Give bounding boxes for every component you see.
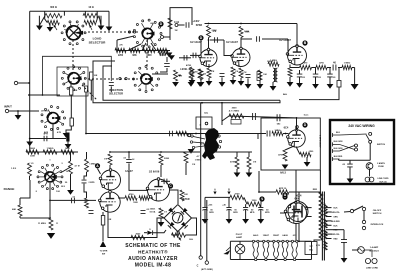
wire C2 up xyxy=(166,57,168,62)
diode D4 xyxy=(168,222,175,229)
wire dash diag xyxy=(82,85,97,100)
wire filter end dn xyxy=(354,68,356,85)
label V5 xyxy=(149,170,160,173)
svg-text:2.7K: 2.7K xyxy=(242,72,247,74)
wire osc out row2 xyxy=(229,116,296,118)
wire SW2b to pots xyxy=(152,73,168,75)
heater V0 filament xyxy=(252,240,259,258)
ground G25 xyxy=(47,233,55,239)
wire filter rail d xyxy=(352,67,355,69)
label 50ua a xyxy=(150,209,157,211)
svg-text:SWITCH: SWITCH xyxy=(373,213,382,215)
label LOAD SELECTOR line1 xyxy=(93,37,103,41)
wire bus2 xyxy=(86,133,258,135)
ground G19 xyxy=(296,83,303,88)
capacitor C2 xyxy=(164,64,170,67)
box CAL connector xyxy=(196,117,212,129)
label mkr b xyxy=(102,254,105,256)
svg-text:470K: 470K xyxy=(186,64,192,67)
svg-text:2 AMPS: 2 AMPS xyxy=(377,162,385,165)
wire T1 dn xyxy=(272,82,274,86)
svg-text:INJECTION: INJECTION xyxy=(109,88,123,92)
wire cap0 dn xyxy=(204,210,206,219)
wire fil right xyxy=(311,241,313,259)
label LINE CORD2 xyxy=(366,268,378,270)
wire R20 dn xyxy=(200,79,202,82)
svg-text:5600: 5600 xyxy=(30,148,36,150)
svg-text:68K: 68K xyxy=(12,209,16,211)
capacitor C6 coupling xyxy=(257,36,260,42)
capacitor C22 electrolytic xyxy=(202,208,214,215)
wire T2 tap7 xyxy=(326,238,332,240)
pot wiper M xyxy=(179,237,182,241)
svg-text:SELECTOR: SELECTOR xyxy=(89,41,107,45)
tube V3 12AX7c xyxy=(286,45,306,65)
svg-text:3900: 3900 xyxy=(232,108,238,110)
svg-text:RED: RED xyxy=(334,239,339,241)
pin circle 2 xyxy=(275,258,277,260)
wire R40 dn xyxy=(160,165,162,177)
wire lamp dn xyxy=(239,254,241,260)
terminal sw b xyxy=(362,207,365,210)
svg-text:1 M: 1 M xyxy=(253,162,257,164)
plug P2 xyxy=(365,177,374,182)
wire T2 tap1 xyxy=(326,211,332,213)
wire R55 dn xyxy=(248,169,250,173)
wire R37 h xyxy=(20,217,51,219)
label BLK2 240 xyxy=(379,181,386,183)
label vr48b xyxy=(309,151,314,153)
junction V1 plate xyxy=(208,39,210,41)
component X1 box xyxy=(231,120,241,125)
ground G2b xyxy=(106,27,113,32)
tube V2 12AX7b xyxy=(231,47,250,66)
node B2 xyxy=(282,194,287,199)
resistor R5 box xyxy=(70,87,73,95)
wire SW2 left stub xyxy=(116,40,118,51)
heater V1 filament xyxy=(263,240,270,258)
wire R54 dn xyxy=(236,169,238,173)
svg-text:LINE CORD: LINE CORD xyxy=(378,178,390,180)
resistor R4 pot xyxy=(84,20,96,24)
capacitor C8 xyxy=(246,75,251,78)
svg-text:68K: 68K xyxy=(132,55,137,57)
transformer T2 sec1 xyxy=(324,204,327,217)
svg-text:SCHEMATIC OF THE: SCHEMATIC OF THE xyxy=(125,243,181,249)
wire C17 xyxy=(161,180,170,182)
label 682 xyxy=(277,124,281,126)
wire sw feed xyxy=(344,211,351,214)
meter M1 xyxy=(173,213,183,223)
resistor R52 3900 xyxy=(229,114,244,118)
capacitor C13 input xyxy=(43,132,49,142)
resistor R41 xyxy=(125,193,137,200)
resistor R16 cal xyxy=(176,131,188,135)
svg-text:6AL5: 6AL5 xyxy=(280,172,287,175)
wire SW4 dn xyxy=(52,124,54,139)
svg-text:BLK-GRN: BLK-GRN xyxy=(334,141,343,143)
capacitor C25 electrolytic xyxy=(258,208,270,215)
label fil 6C4 xyxy=(293,234,298,237)
svg-text:39 K: 39 K xyxy=(61,186,66,188)
label vd5 xyxy=(149,229,151,231)
label PILOT line1 xyxy=(236,234,243,236)
junction fil v7 xyxy=(298,240,300,242)
capacitor C31 xyxy=(109,83,114,86)
wire R39 dn xyxy=(109,165,111,170)
resistor R34 xyxy=(69,161,73,174)
wire C6 right xyxy=(262,38,288,40)
label tap GRN-YEL xyxy=(331,212,340,214)
wire R1 stub L xyxy=(44,11,46,15)
wire R37 u xyxy=(19,198,21,205)
svg-text:56 K: 56 K xyxy=(65,148,70,150)
svg-text:6AU6: 6AU6 xyxy=(282,234,288,237)
wire T2 prim dn xyxy=(314,240,321,242)
ground G5 xyxy=(166,53,173,58)
label range p3 xyxy=(35,191,38,193)
transformer T2 primary xyxy=(319,192,322,240)
label 140V xyxy=(193,20,200,23)
transformer T2 core a xyxy=(321,192,323,261)
label range 1 xyxy=(49,160,51,162)
wire gang dash SW1-SW2 xyxy=(80,31,140,33)
wire C14 dn xyxy=(84,184,87,198)
svg-text:12AX7: 12AX7 xyxy=(263,234,270,237)
svg-text:1 MEG: 1 MEG xyxy=(344,63,351,65)
label vc10 xyxy=(318,77,322,79)
wire R21 dn xyxy=(208,78,210,81)
wire res row rail xyxy=(117,50,170,52)
node D1 xyxy=(158,21,163,26)
label vr44 xyxy=(164,212,168,214)
svg-text:GRN: GRN xyxy=(333,217,338,219)
node A2 xyxy=(259,196,264,201)
label title line3 xyxy=(128,256,178,262)
label vr30b xyxy=(30,156,35,158)
label INPUT terminal xyxy=(4,105,12,109)
ground G13 xyxy=(238,81,245,86)
resistor R31 1MEG xyxy=(43,148,57,154)
pin circle 0 xyxy=(255,258,257,260)
svg-text:2700: 2700 xyxy=(235,193,241,195)
wire 240 cap u xyxy=(349,160,351,164)
wire 240 low rail xyxy=(339,159,371,161)
wire V7 dn xyxy=(295,224,297,242)
wire T2 tap0 xyxy=(326,207,332,209)
wire cap2 dn xyxy=(245,210,247,219)
tube V7 6X4 xyxy=(288,201,308,222)
svg-text:Z5021: Z5021 xyxy=(150,209,157,211)
wire input cap row xyxy=(30,138,66,140)
wire bridge dio2 xyxy=(153,230,166,233)
resistor R14 1800 xyxy=(198,69,202,80)
label fil 12AX7 xyxy=(263,234,270,237)
label fil 6AU6 xyxy=(282,234,288,237)
pin circle 3 xyxy=(284,258,286,260)
svg-text:330K: 330K xyxy=(30,156,35,158)
label 6AL5 xyxy=(280,172,287,175)
terminal 240 sw2 xyxy=(369,140,372,143)
junction bus2 cal xyxy=(195,133,197,135)
svg-text:1 MEG: 1 MEG xyxy=(47,148,54,150)
svg-text:2 MFD: 2 MFD xyxy=(89,182,96,184)
svg-text:220K: 220K xyxy=(164,158,170,160)
plug P1 xyxy=(365,258,377,263)
wire fil rail bot xyxy=(230,259,311,261)
svg-text:METER: METER xyxy=(181,199,189,201)
svg-text:6800: 6800 xyxy=(146,55,152,57)
svg-text:AUDIO ANALYZER: AUDIO ANALYZER xyxy=(128,256,178,262)
ground G26 xyxy=(158,222,165,227)
ref arrow A xyxy=(213,189,216,195)
wire R44 dn xyxy=(160,218,162,222)
svg-text:.047: .047 xyxy=(43,132,48,135)
svg-text:4 MFD 450V: 4 MFD 450V xyxy=(319,135,322,148)
label FUSE xyxy=(378,166,384,168)
resistor R30 5600 xyxy=(26,148,39,154)
wire sw5 right xyxy=(62,167,71,172)
label vr60 xyxy=(108,219,112,221)
resistor R44 xyxy=(159,208,163,218)
transformer T2 sec2 xyxy=(324,219,327,228)
wire 240 stub0 xyxy=(333,132,341,137)
svg-text:1 M: 1 M xyxy=(104,159,108,161)
wire to C term xyxy=(200,103,202,256)
label vr7b xyxy=(119,45,123,47)
label INTERLOCK xyxy=(371,224,384,226)
wire V1 cath dn xyxy=(208,64,210,68)
resistor R2 load 16 xyxy=(83,6,99,18)
wire R6 gnd xyxy=(66,126,71,133)
resistor R11 14 xyxy=(168,18,179,29)
wire gang dash SW3-SW2b xyxy=(80,78,139,80)
resistor R47 xyxy=(283,150,287,161)
ground G15b xyxy=(257,84,264,89)
svg-text:RANGE: RANGE xyxy=(4,187,15,191)
label 2AMP xyxy=(377,162,385,165)
svg-text:hum: hum xyxy=(304,115,309,117)
svg-text:MFD: MFD xyxy=(250,212,255,214)
diode D5 xyxy=(147,230,152,235)
resistor R13 470K xyxy=(186,64,193,80)
wire C12 d xyxy=(329,77,331,84)
wire R5 up xyxy=(70,81,72,87)
label 4.7M xyxy=(74,165,79,168)
junction b+feed L xyxy=(109,151,111,153)
resistor R48 xyxy=(300,152,311,156)
wire range rail xyxy=(26,151,78,153)
wire 240 top link xyxy=(340,134,367,135)
label vr55 xyxy=(253,162,257,164)
svg-text:2200: 2200 xyxy=(118,55,124,57)
transformer T2 core b xyxy=(323,192,325,261)
capacitor C30 xyxy=(72,198,75,204)
heater V4 filament xyxy=(291,240,298,258)
resistor R36 xyxy=(38,218,53,230)
label V3 xyxy=(279,39,291,42)
svg-text:11 MEG: 11 MEG xyxy=(38,223,46,225)
wire v4 link xyxy=(118,197,125,199)
capacitor C24 electrolytic xyxy=(243,208,255,215)
terminal 240 a xyxy=(355,144,358,147)
wire fil left xyxy=(229,241,231,259)
tube V7 6X4 xyxy=(284,201,306,223)
resistor R23 xyxy=(258,70,262,80)
resistor R55 xyxy=(247,157,251,169)
bridge diamond xyxy=(164,205,192,232)
tube V5 6AU6 xyxy=(146,178,169,201)
wire T2 tap3 xyxy=(326,220,332,222)
junction sw5 out xyxy=(49,200,51,202)
svg-text:50 UA: 50 UA xyxy=(150,211,156,214)
wire C32 xyxy=(179,57,191,59)
wire bridge loop xyxy=(172,232,178,236)
label vc11 xyxy=(333,77,337,79)
chassis arrow xyxy=(223,247,230,255)
wire C11 d xyxy=(315,77,317,84)
label range 10 xyxy=(66,171,69,173)
label FUNCTION line1 xyxy=(109,88,123,92)
svg-text:4.7K: 4.7K xyxy=(57,131,62,134)
resistor R37 xyxy=(12,205,22,216)
svg-text:1 M: 1 M xyxy=(192,164,196,166)
wire V1 plate xyxy=(208,38,210,50)
ground G10 xyxy=(198,82,205,87)
wire v5 link xyxy=(149,197,153,199)
wire 240 sw col xyxy=(369,143,371,160)
wire right feed xyxy=(319,170,321,196)
pin circle 1 xyxy=(265,258,267,260)
wire 240 cross2 xyxy=(340,146,355,152)
wire bus2 right down xyxy=(257,134,259,140)
wire T2 tap4 xyxy=(326,224,332,226)
ground G12 xyxy=(230,80,237,85)
lamp PL1 pilot xyxy=(235,244,245,254)
terminal J1 xyxy=(14,81,17,84)
wire C10 d xyxy=(299,77,301,83)
capacitor C5 V1 grid xyxy=(193,53,196,59)
svg-text:1 M: 1 M xyxy=(235,71,239,73)
wire R55 up xyxy=(248,152,250,157)
pot wiper R4 xyxy=(90,25,93,30)
tube V1 12AX7a xyxy=(199,48,217,66)
label CAL 3 xyxy=(199,125,201,127)
terminal CAL xyxy=(205,122,208,125)
svg-text:1500: 1500 xyxy=(252,200,258,202)
wire R19 dn xyxy=(191,77,193,80)
svg-text:6C4: 6C4 xyxy=(284,126,289,130)
wire 240 stub3 xyxy=(333,156,343,161)
capacitor C33 series xyxy=(333,61,336,71)
label fuse xyxy=(370,246,379,249)
switch SW6 rotor blob xyxy=(190,128,221,160)
svg-text:MFD: MFD xyxy=(233,212,238,214)
wire sw5 d xyxy=(49,183,51,218)
label hum xyxy=(304,115,309,117)
terminal fb xyxy=(161,36,164,39)
terminal C end xyxy=(199,256,202,259)
wire filter rail c xyxy=(338,67,342,69)
svg-text:1W: 1W xyxy=(175,30,178,32)
ground G27 xyxy=(282,165,289,170)
svg-text:1.4 AMP: 1.4 AMP xyxy=(370,246,379,249)
label LEVEL xyxy=(180,69,188,71)
resistor R40 220K xyxy=(159,154,170,165)
junction B+ V2 xyxy=(240,23,242,25)
ground G11 xyxy=(206,81,213,86)
wire cath l xyxy=(285,146,294,150)
wire V2 grid xyxy=(224,40,232,56)
wire C26 d xyxy=(343,242,345,258)
wire T2 tap2 xyxy=(326,216,332,218)
capacitor C20 grid xyxy=(267,131,270,137)
label tap RED xyxy=(334,230,339,232)
diode D1 xyxy=(168,208,175,215)
label title line1 xyxy=(125,243,181,249)
ground G1b xyxy=(98,26,105,31)
svg-text:LEVEL: LEVEL xyxy=(180,69,188,71)
wire C14 up xyxy=(84,172,87,179)
svg-text:12AX7: 12AX7 xyxy=(125,170,133,173)
svg-text:16 Ω: 16 Ω xyxy=(88,6,93,9)
capacitor C12 xyxy=(327,74,333,77)
ground G32 xyxy=(242,219,249,224)
wire B+ rail xyxy=(205,23,298,25)
box 6C4 section xyxy=(261,118,320,170)
capacitor C11 xyxy=(313,74,319,77)
resistor R61 box xyxy=(90,72,93,80)
capacitor C32 xyxy=(184,55,187,61)
junction J2 xyxy=(17,110,19,112)
svg-text:BLK-RED: BLK-RED xyxy=(334,156,343,158)
resistor R9 6800 xyxy=(143,48,155,57)
wire ps caps feed xyxy=(204,197,206,207)
svg-text:ATR 10: ATR 10 xyxy=(279,187,287,190)
label LINE CORD 240 xyxy=(378,178,390,180)
label ON-OFF xyxy=(373,210,382,212)
capacitor C21 xyxy=(347,164,353,167)
label .05 xyxy=(342,164,346,166)
svg-text:4700: 4700 xyxy=(129,193,135,196)
resistor R22 cathode xyxy=(231,67,235,77)
node B1 xyxy=(302,40,307,45)
svg-text:BLK-RED: BLK-RED xyxy=(331,221,340,223)
wire cath r xyxy=(296,147,300,155)
resistor R12 pot level xyxy=(174,70,178,81)
terminal J2 input xyxy=(5,109,8,112)
wire V7 plate rail2 xyxy=(289,191,311,193)
terminal 240 sw1 xyxy=(369,132,372,135)
switch SW2b function wafer xyxy=(133,66,160,93)
label vc12 xyxy=(302,77,306,79)
wire b+ feed xyxy=(110,151,200,153)
wire lamp up xyxy=(239,241,241,244)
svg-text:ATTEN: ATTEN xyxy=(41,110,48,113)
inductor T1 winding R xyxy=(276,68,278,82)
label 6X4 xyxy=(295,197,300,201)
svg-text:10K: 10K xyxy=(263,74,267,76)
resistor R3 pot xyxy=(47,20,59,24)
svg-text:22K: 22K xyxy=(184,194,188,196)
ground G41 xyxy=(188,149,195,154)
label RED xyxy=(313,189,318,191)
contact dash d xyxy=(133,31,135,33)
label v1k8 xyxy=(193,72,198,74)
wire ps rail xyxy=(205,196,230,198)
svg-text:ON-OFF: ON-OFF xyxy=(373,210,382,212)
tube V4b 12AX7 xyxy=(99,191,121,213)
